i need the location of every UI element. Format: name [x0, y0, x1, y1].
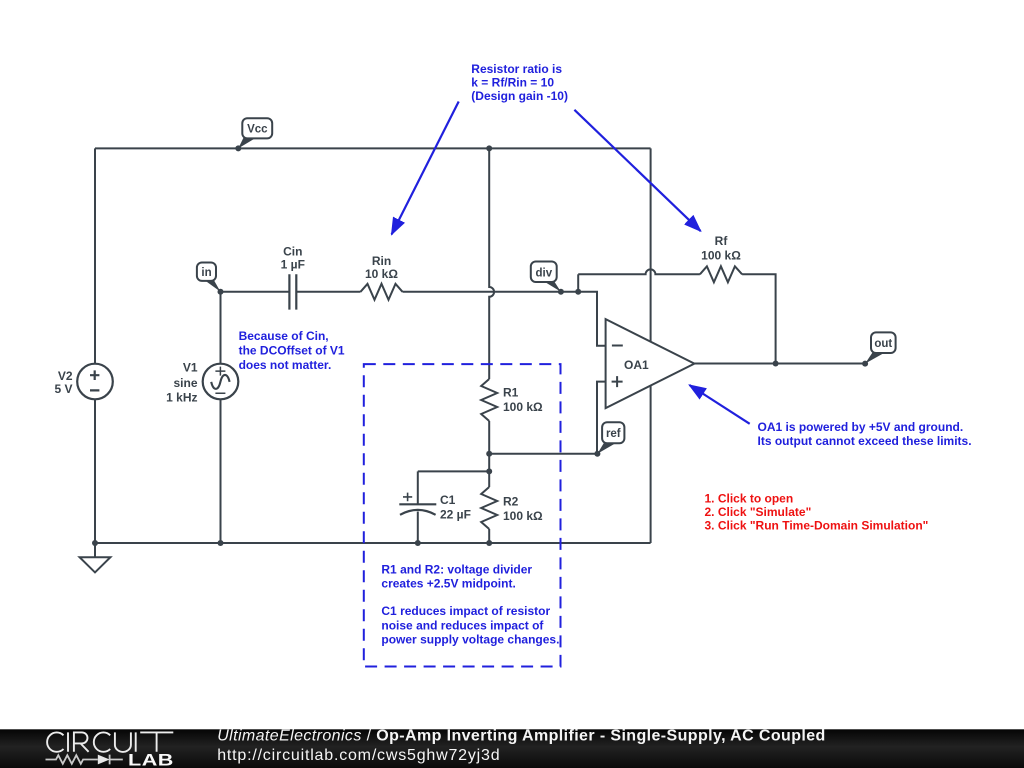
svg-text:100 kΩ: 100 kΩ — [503, 400, 543, 414]
wire op-amp plus input branch — [597, 382, 606, 454]
svg-text:R2: R2 — [503, 495, 519, 509]
capacitor Cin — [289, 274, 296, 309]
annotation arrow left from ratio text to Rin area — [392, 102, 459, 235]
svg-text:k = Rf/Rin = 10: k = Rf/Rin = 10 — [471, 76, 554, 90]
junction dot ref node — [594, 451, 600, 457]
svg-text:100 kΩ: 100 kΩ — [503, 509, 543, 523]
capacitor C1 plus mark — [403, 493, 412, 502]
svg-text:Cin: Cin — [283, 245, 302, 259]
wire C1 top lead — [417, 471, 419, 504]
wire C1 branch horizontal — [418, 470, 489, 472]
svg-text:Rf: Rf — [715, 234, 729, 248]
wire left rail upper (Vcc to V2 top) — [94, 148, 96, 363]
node ref flag — [597, 422, 624, 454]
junction dot Vcc flag anchor — [235, 145, 241, 151]
annotation text OA1 powered — [758, 420, 972, 448]
svg-text:Vcc: Vcc — [247, 124, 268, 136]
svg-text:out: out — [874, 338, 892, 350]
svg-text:OA1 is powered by +5V and grou: OA1 is powered by +5V and ground. — [758, 420, 964, 434]
wire R1 bottom to R2 top — [488, 421, 490, 487]
resistor Rf — [700, 266, 742, 282]
svg-text:V2: V2 — [58, 369, 73, 383]
svg-text:Resistor ratio is: Resistor ratio is — [471, 62, 562, 76]
annotation arrow to op-amp output — [689, 385, 749, 424]
junction dot in node — [218, 289, 224, 295]
svg-text:Because of Cin,: Because of Cin, — [239, 329, 329, 343]
svg-text:1 µF: 1 µF — [281, 258, 305, 272]
wire Vcc branch down to R1 with hop over in-wire — [489, 148, 494, 379]
svg-text:R1 and R2: voltage divider: R1 and R2: voltage divider — [381, 562, 532, 576]
junction dot ground rail at V1 — [218, 540, 224, 546]
svg-text:100 kΩ: 100 kΩ — [701, 248, 741, 262]
svg-text:http://circuitlab.com/cws5ghw7: http://circuitlab.com/cws5ghw72yj3d — [217, 747, 500, 764]
junction dot ground rail at V2 — [92, 540, 98, 546]
op-amp OA1 — [606, 319, 695, 408]
svg-text:the DCOffset of V1: the DCOffset of V1 — [239, 344, 345, 358]
svg-text:div: div — [535, 267, 552, 279]
junction dot Vcc rail / R1 branch — [486, 145, 492, 151]
wire V1 stem up — [220, 292, 222, 364]
svg-text:3. Click "Run Time-Domain Simu: 3. Click "Run Time-Domain Simulation" — [705, 519, 929, 533]
svg-text:sine: sine — [173, 376, 197, 390]
svg-text:power supply voltage changes.: power supply voltage changes. — [381, 633, 559, 647]
footer bar — [0, 729, 1024, 768]
svg-text:R1: R1 — [503, 386, 519, 400]
annotation text because of Cin — [239, 329, 345, 372]
svg-text:5 V: 5 V — [54, 382, 72, 396]
node in flag — [197, 263, 221, 292]
wire Rin to op-amp minus branch — [403, 292, 606, 346]
svg-text:V1: V1 — [183, 360, 198, 374]
wire op-amp V- drop to ground rail — [650, 386, 652, 543]
junction dot ground rail at R2 — [486, 540, 492, 546]
wire feedback riser at inverting node — [577, 274, 579, 292]
svg-text:C1: C1 — [440, 493, 456, 507]
annotation arrow right from ratio text to Rf area — [574, 110, 700, 231]
op-amp plus input mark — [612, 376, 623, 387]
annotation text red click steps — [705, 491, 929, 532]
svg-text:LAB: LAB — [128, 751, 174, 768]
resistor Rin — [361, 284, 403, 300]
junction dot div flag anchor — [558, 289, 564, 295]
ground symbol — [80, 557, 111, 572]
junction dot feedback/output — [773, 361, 779, 367]
node out flag — [865, 332, 896, 363]
wire ground stem — [94, 543, 96, 557]
svg-text:22 µF: 22 µF — [440, 508, 471, 522]
svg-text:ref: ref — [606, 428, 621, 440]
svg-text:Its output cannot exceed these: Its output cannot exceed these limits. — [758, 434, 972, 448]
wire in node to Cin left plate — [221, 291, 290, 293]
logo CIRCUIT wordmark — [47, 732, 173, 751]
svg-text:10 kΩ: 10 kΩ — [365, 267, 398, 281]
voltage source V1 (sine) — [203, 364, 239, 400]
wire left rail lower (V2 bottom to ground rail) — [94, 399, 96, 543]
svg-text:1 kHz: 1 kHz — [166, 391, 197, 405]
op-amp minus input mark — [612, 345, 623, 347]
annotation text resistor ratio — [471, 62, 568, 103]
junction dot divider midpoint — [486, 451, 492, 457]
wire ground bottom rail — [95, 542, 651, 544]
annotation text voltage divider — [381, 562, 559, 646]
svg-text:(Design gain -10): (Design gain -10) — [471, 89, 568, 103]
svg-text:noise and reduces impact of: noise and reduces impact of — [381, 618, 544, 632]
wire feedback top run with hop over V+ drop — [578, 269, 700, 274]
voltage source V2 — [77, 364, 113, 400]
wire R2 bottom to ground rail — [488, 529, 490, 543]
resistor R2 — [481, 487, 497, 529]
wire Vcc top rail — [95, 147, 651, 149]
junction dot ground rail at C1 — [415, 540, 421, 546]
svg-text:1. Click to open: 1. Click to open — [705, 491, 794, 505]
wire op-amp V+ drop from Vcc rail — [650, 148, 652, 342]
svg-text:OA1: OA1 — [624, 358, 649, 372]
wire Rf right lead to output drop — [742, 274, 776, 363]
svg-text:UltimateElectronics / Op-Amp I: UltimateElectronics / Op-Amp Inverting A… — [217, 728, 826, 745]
resistor R1 — [481, 379, 497, 421]
annotation dashed box around R1 R2 C1 — [364, 364, 561, 666]
svg-text:Rin: Rin — [372, 254, 391, 268]
junction dot feedback riser — [575, 289, 581, 295]
node Vcc flag — [238, 118, 272, 148]
svg-text:does not matter.: does not matter. — [239, 358, 332, 372]
svg-text:in: in — [201, 267, 211, 279]
logo resistor-diode strip — [46, 755, 123, 765]
svg-text:C1 reduces impact of resistor: C1 reduces impact of resistor — [381, 604, 550, 618]
junction dot C1 branch — [486, 468, 492, 474]
wire C1 bottom lead — [417, 512, 419, 544]
capacitor C1 (polarized) — [399, 503, 436, 505]
node div flag — [531, 262, 561, 292]
wire op-amp output to out flag — [694, 363, 865, 365]
wire Cin right plate to Rin — [296, 291, 360, 293]
wire ref run from divider midpoint — [489, 453, 597, 455]
wire V1 stem down — [220, 399, 222, 543]
svg-text:creates +2.5V midpoint.: creates +2.5V midpoint. — [381, 577, 515, 591]
junction dot out flag anchor — [862, 361, 868, 367]
svg-text:2. Click "Simulate": 2. Click "Simulate" — [705, 505, 812, 519]
